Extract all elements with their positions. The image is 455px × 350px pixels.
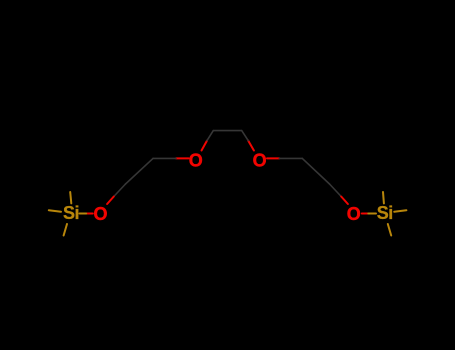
- wire O2 to C_a2 (red half): [267, 157, 279, 159]
- wire O1 to C_a (red half): [176, 157, 189, 159]
- wire Si2 methyl right: [394, 210, 406, 212]
- wire O2 to C_br (carbon half): [242, 131, 249, 141]
- wire C_mid2 to O4 (red half): [341, 197, 348, 205]
- wire O3 to Si1 (silicon half): [80, 213, 87, 215]
- wire O3 to Si1 (red half): [86, 213, 93, 215]
- wire Si1 methyl left: [49, 210, 61, 212]
- wire O2 to C_a2 (carbon half): [279, 157, 302, 159]
- wire Si1 methyl down-left: [64, 224, 67, 236]
- wire C_mid2 to O4 (carbon half): [330, 184, 342, 197]
- svg-text:O: O: [347, 204, 361, 224]
- svg-text:O: O: [253, 151, 267, 171]
- wire O1 to C_bl (carbon half): [207, 131, 213, 141]
- wire O1 to C_a (carbon half): [153, 157, 176, 159]
- svg-text:O: O: [189, 151, 203, 171]
- wire O1 to C_bl (red half): [202, 141, 208, 151]
- svg-text:Si: Si: [377, 203, 393, 223]
- wire C_mid to O3 (red half): [107, 197, 114, 205]
- wire O2 to C_br (red half): [248, 141, 254, 151]
- svg-text:Si: Si: [63, 203, 79, 223]
- wire O4 to Si2 (red half): [362, 213, 369, 215]
- wire O4 to Si2 (silicon half): [368, 213, 376, 215]
- svg-text:O: O: [93, 204, 107, 224]
- wire Si2 methyl down-right: [388, 224, 391, 236]
- wire C_bl to C_br: [213, 130, 241, 132]
- wire C_mid to O3 (carbon half): [114, 184, 126, 197]
- wire C_a to C_mid: [126, 158, 154, 184]
- wire Si1 methyl up: [70, 192, 71, 203]
- wire C_a2 to C_mid2: [302, 158, 329, 184]
- wire Si2 methyl up: [382, 192, 385, 203]
